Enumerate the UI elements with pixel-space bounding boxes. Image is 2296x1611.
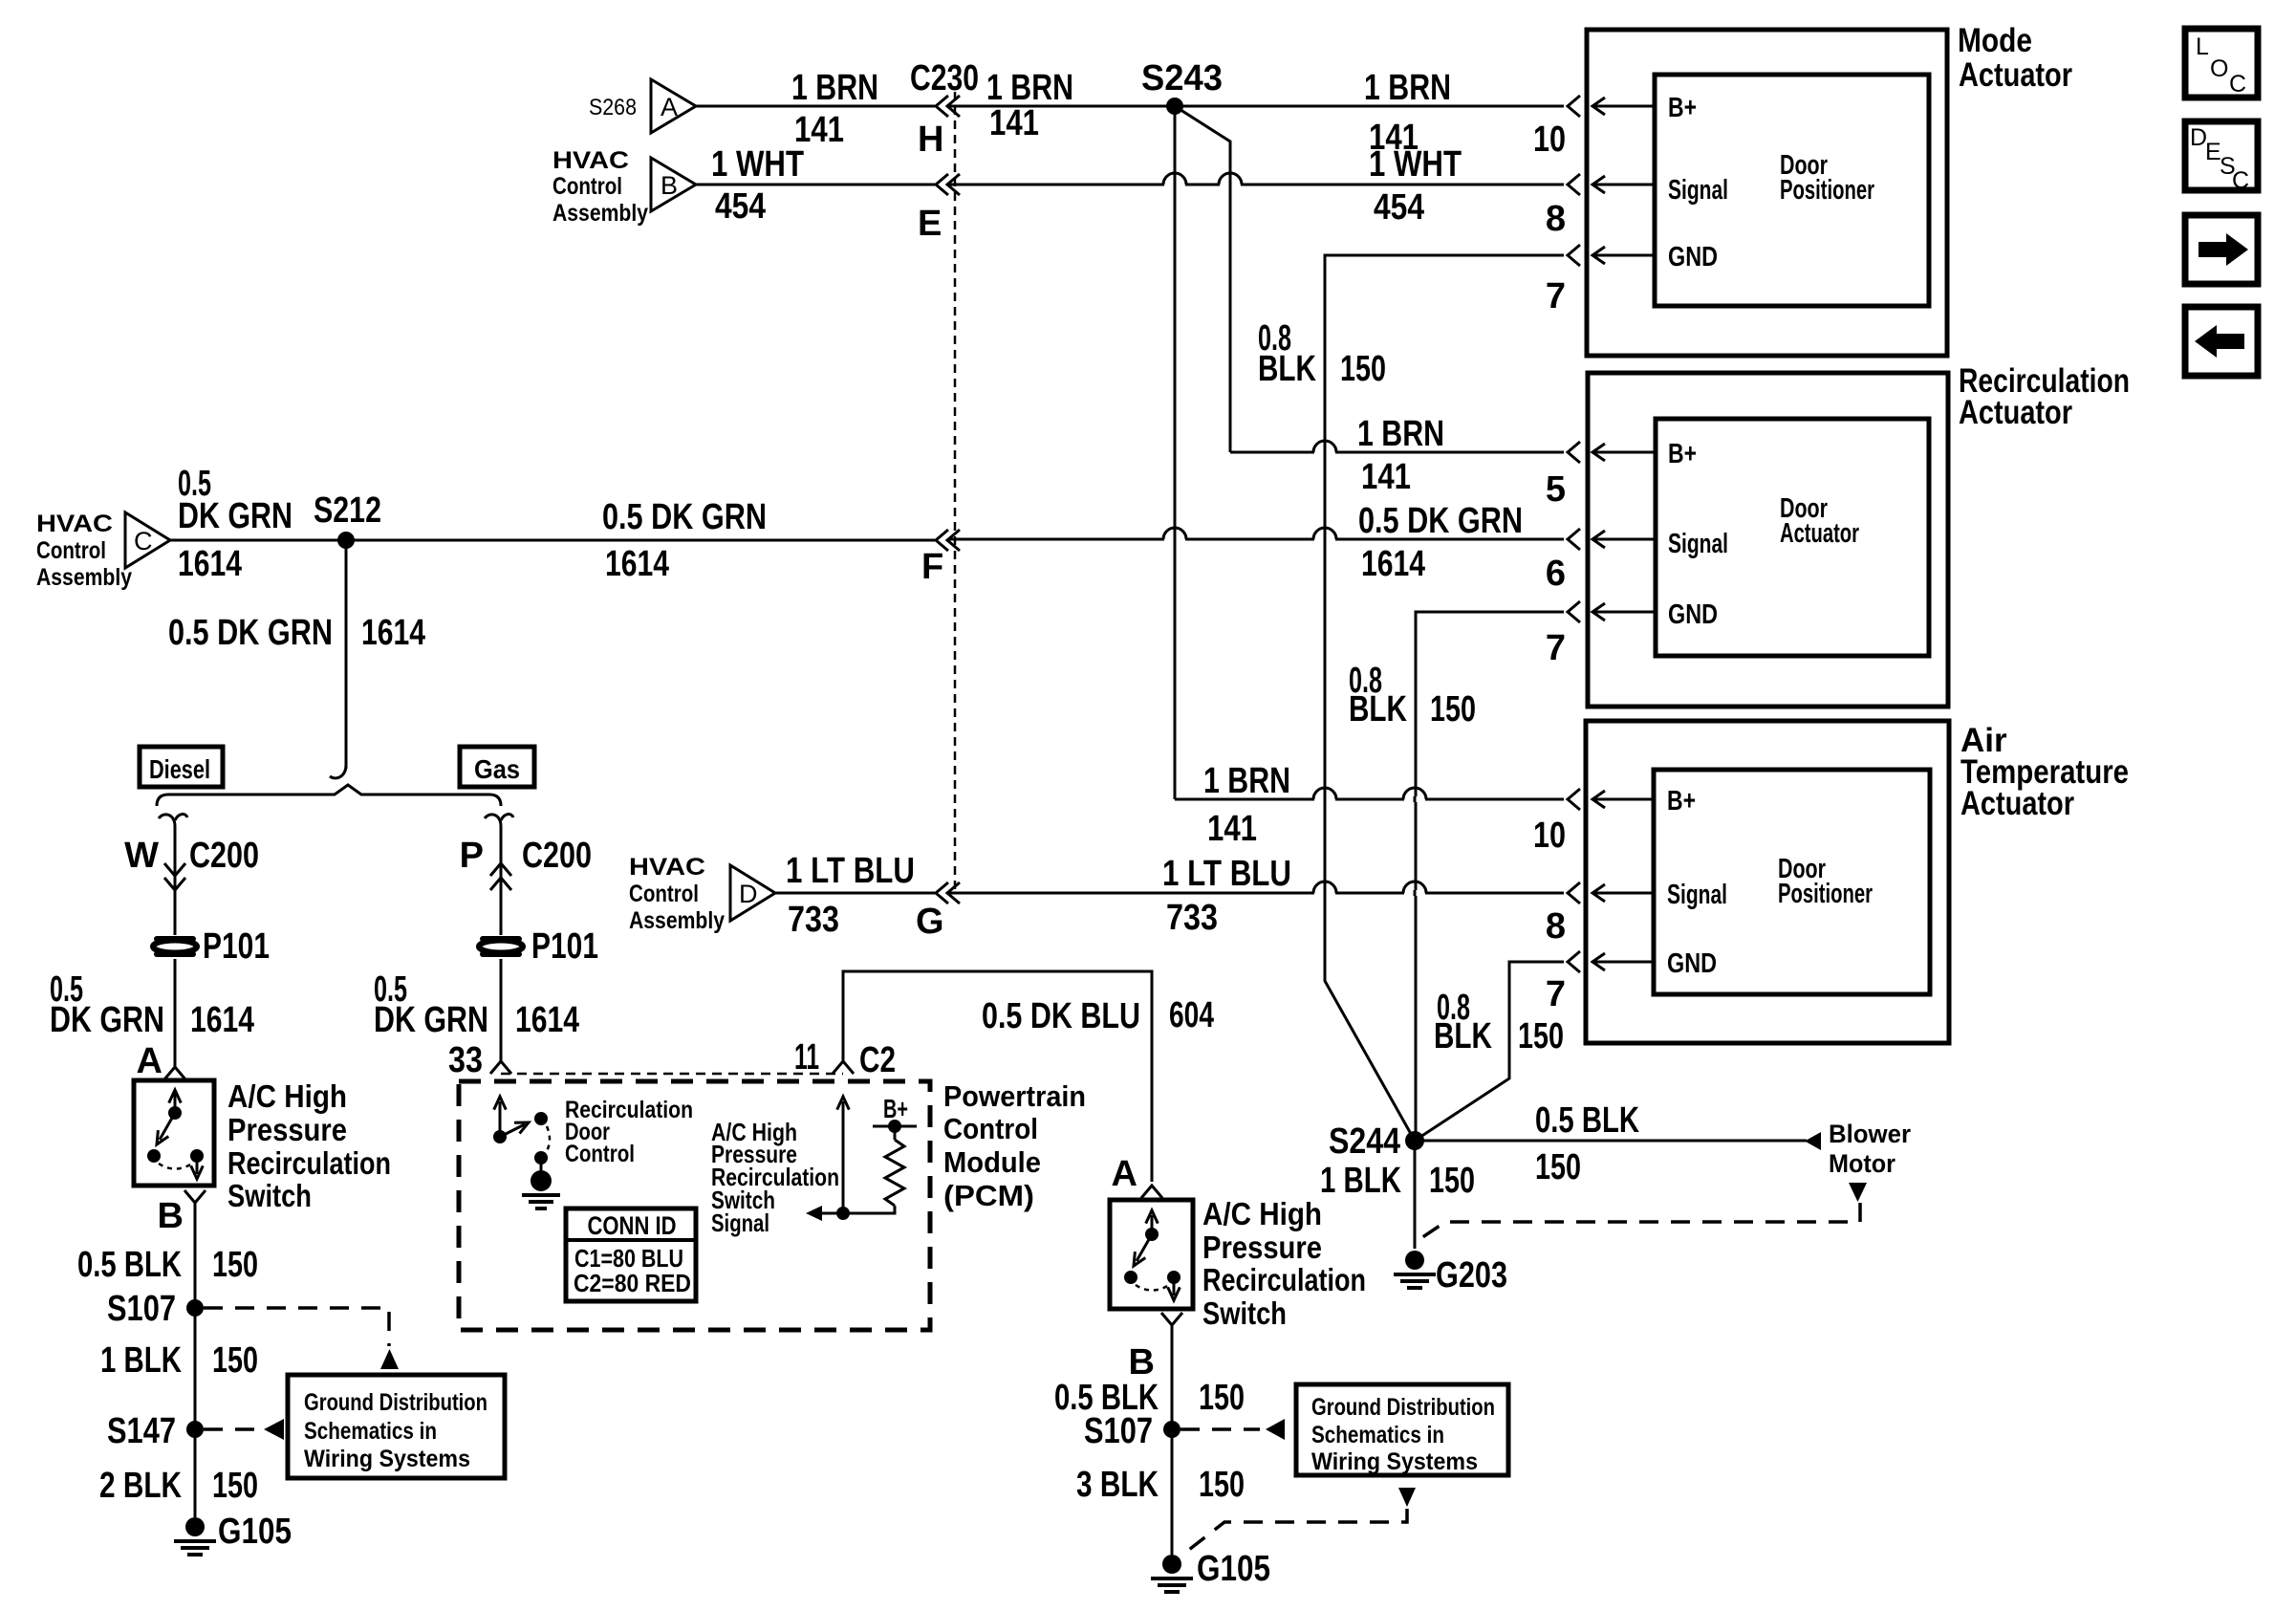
reference arrowhead below Blower Motor (1849, 1183, 1867, 1202)
svg-text:Pressure: Pressure (227, 1112, 347, 1147)
wire 0.5 DK GRN 1614 from S212 to connector C230 pin F (346, 539, 935, 542)
wire 1 BRN 141 from S243 to Mode Actuator pin 10 (1175, 105, 1564, 108)
tag box Diesel (140, 747, 223, 787)
Air Temp pin 10 chevron (1568, 789, 1580, 810)
svg-text:S268: S268 (589, 95, 637, 120)
connector C230 double chevron at pin H (936, 96, 948, 117)
label HVAC Control Assembly (bottom) (629, 854, 725, 934)
PCM recirculation door control driver symbol (493, 1097, 560, 1208)
Air Temp pin 7 chevron (1568, 951, 1580, 972)
svg-text:Pressure: Pressure (1202, 1230, 1322, 1265)
wire from P101 down to PCM connector pin 33 (500, 959, 503, 1061)
svg-text:Positioner: Positioner (1780, 175, 1874, 206)
svg-text:150: 150 (1430, 689, 1476, 729)
brace joining Diesel and Gas branches (157, 785, 501, 806)
svg-text:BLK: BLK (1258, 349, 1316, 389)
svg-text:Assembly: Assembly (36, 564, 132, 591)
wire 3 BLK 150 from right S107 to G105 (1171, 1429, 1174, 1555)
svg-text:Control: Control (36, 537, 106, 564)
svg-text:P101: P101 (531, 926, 598, 967)
svg-text:10: 10 (1533, 120, 1566, 160)
PCM internal signal arrow up (842, 1101, 845, 1213)
svg-text:150: 150 (1199, 1378, 1245, 1418)
svg-text:1 BRN: 1 BRN (986, 68, 1073, 108)
svg-text:A/C High: A/C High (227, 1078, 347, 1114)
svg-text:1 LT BLU: 1 LT BLU (1162, 854, 1291, 894)
ground G203 (1405, 1251, 1424, 1270)
svg-text:Control: Control (552, 173, 622, 200)
Recirculation pin 6 chevron (1568, 529, 1580, 550)
right A/C switch internals (1124, 1210, 1180, 1300)
svg-text:Motor: Motor (1829, 1149, 1895, 1178)
note text Ground Distribution Schematics (left) (304, 1389, 487, 1472)
label A/C High Pressure Recirculation Switch (right) (1202, 1196, 1366, 1331)
PCM B+ pull-up terminal (873, 1120, 917, 1140)
connector C230 double chevron at pin G (936, 882, 948, 903)
svg-text:7: 7 (1546, 628, 1566, 668)
connector C230 double chevron at pin E (936, 174, 948, 195)
label Door Positioner (Air Temp) (1778, 854, 1873, 909)
icon box LOC (2185, 29, 2258, 98)
svg-text:Recirculation: Recirculation (1202, 1262, 1366, 1297)
wire hop over Mode GND vertical (1314, 449, 1335, 455)
label A/C High Pressure Recirculation Switch Signal (PCM) (711, 1118, 839, 1237)
chevron at PCM pin 11 C2 (833, 1061, 854, 1074)
wire 1 WHT 454 from HVAC B to connector C230 pin E (696, 184, 935, 186)
svg-text:Wiring Systems: Wiring Systems (304, 1446, 470, 1472)
svg-text:E: E (918, 204, 942, 244)
splice S107 junction dot (right) (1163, 1421, 1180, 1438)
label Blower Motor (1829, 1120, 1911, 1178)
svg-text:B: B (661, 171, 678, 200)
svg-text:Wiring Systems: Wiring Systems (1311, 1448, 1478, 1475)
dashed connector line C230 (954, 92, 957, 893)
svg-text:141: 141 (1361, 457, 1411, 497)
svg-text:B+: B+ (1668, 93, 1697, 123)
svg-text:B+: B+ (883, 1094, 908, 1123)
svg-text:GND: GND (1668, 242, 1718, 272)
splice S147 junction dot (186, 1421, 204, 1438)
svg-text:150: 150 (212, 1245, 258, 1285)
svg-text:1614: 1614 (361, 613, 425, 653)
svg-text:150: 150 (1518, 1016, 1564, 1056)
component box Recirculation Actuator (1588, 373, 1948, 707)
wire 0.5 BLK 150 from right switch B to S107 (1171, 1325, 1174, 1429)
connector C200 chevron 2 (up) (490, 878, 511, 890)
svg-text:D: D (739, 880, 758, 908)
svg-text:1614: 1614 (1361, 544, 1425, 584)
note box CONN ID (566, 1208, 696, 1301)
svg-text:S243: S243 (1141, 58, 1223, 98)
svg-text:A: A (1112, 1154, 1137, 1194)
svg-text:BLK: BLK (1349, 689, 1407, 729)
svg-text:HVAC: HVAC (629, 854, 705, 881)
Recirculation B+ input arrow (1594, 451, 1655, 454)
svg-text:S244: S244 (1329, 1121, 1400, 1162)
svg-text:S147: S147 (107, 1411, 176, 1451)
Air Temp B+ input arrow (1594, 798, 1655, 801)
wire 1 BRN 141 from S268 to connector C230 pin H (696, 105, 935, 108)
wire Diesel branch into C200 pin W (174, 860, 177, 935)
svg-text:Gas: Gas (474, 754, 520, 784)
svg-text:0.5 BLK: 0.5 BLK (1535, 1100, 1639, 1141)
svg-text:Schematics in: Schematics in (1311, 1422, 1444, 1448)
svg-text:1 WHT: 1 WHT (1369, 144, 1462, 185)
component dashed box Powertrain Control Module PCM (459, 1081, 930, 1330)
wire hop over Mode GND vertical (AT B+) (1314, 796, 1335, 802)
svg-text:454: 454 (715, 186, 766, 227)
svg-text:H: H (918, 120, 943, 160)
splice S107 junction dot (left) (186, 1299, 204, 1317)
component box A/C High Pressure Recirculation Switch (left) (134, 1080, 214, 1186)
svg-text:C2: C2 (859, 1040, 896, 1080)
wire 0.5 BLK 150 from S244 to Blower Motor (1415, 1140, 1807, 1143)
svg-text:Recirculation: Recirculation (227, 1145, 391, 1181)
title Air Temperature Actuator (1960, 722, 2129, 822)
Mode B+ input arrow (1594, 105, 1655, 108)
title Powertrain Control Module (PCM) (943, 1079, 1086, 1212)
Mode pin 8 chevron (1568, 174, 1580, 195)
svg-text:DK GRN: DK GRN (374, 1000, 488, 1040)
svg-text:150: 150 (1340, 349, 1386, 389)
svg-text:0.5 DK GRN: 0.5 DK GRN (1358, 501, 1523, 541)
wire 0.5 DK GRN 1614 from S212 down to Diesel/Gas brace (345, 540, 348, 769)
Mode pin 7 chevron (1568, 245, 1580, 266)
svg-text:G203: G203 (1436, 1255, 1507, 1295)
wire from S243 straight down to Air Temperature B+ feed (1174, 106, 1177, 799)
icon box left arrow (2185, 307, 2258, 376)
chevron into left A/C switch pin A (164, 1067, 185, 1079)
svg-text:3 BLK: 3 BLK (1076, 1465, 1159, 1505)
svg-text:0.5 DK GRN: 0.5 DK GRN (168, 613, 333, 653)
dashed reference from S147 to note box (204, 1427, 260, 1431)
svg-text:7: 7 (1546, 276, 1566, 316)
svg-text:S107: S107 (107, 1289, 176, 1329)
Recirculation Signal input arrow (1594, 538, 1655, 541)
Mode pin 10 chevron (1568, 96, 1580, 117)
svg-text:150: 150 (212, 1340, 258, 1381)
wire 1 BLK 150 from S107 to S147 (194, 1308, 197, 1427)
svg-text:0.5 BLK: 0.5 BLK (77, 1245, 182, 1285)
svg-text:(PCM): (PCM) (943, 1179, 1034, 1212)
connector C200 chevron 1 (up) (490, 863, 511, 876)
svg-text:2 BLK: 2 BLK (99, 1466, 182, 1506)
resistor R pull-up in PCM (885, 1140, 904, 1206)
splice S243 junction dot (1166, 98, 1183, 115)
wire hop over Recirc GND vertical (G wire) (1404, 890, 1425, 896)
wire 1 BRN 141 into Air Temp pin 10 (1175, 798, 1564, 801)
label Door Positioner (Mode) (1780, 150, 1874, 206)
wire 1 BRN 141 from C230 to splice S243 (948, 105, 1175, 108)
svg-text:C200: C200 (189, 836, 259, 876)
svg-text:Control: Control (943, 1112, 1038, 1145)
svg-text:C: C (134, 527, 153, 555)
icon box DESC (2185, 121, 2258, 194)
wire break curl at top of Diesel branch (159, 815, 187, 865)
svg-text:Actuator: Actuator (1959, 394, 2072, 431)
wire 1 WHT 454 from C230 to Mode Actuator pin 8 (948, 184, 1564, 186)
svg-text:Signal: Signal (1668, 175, 1728, 206)
svg-text:Control: Control (629, 881, 699, 907)
wire Gas branch into C200 pin P (500, 860, 503, 935)
inner box Door Positioner (Air Temp) (1654, 770, 1930, 994)
wire diagonal from S243 to Recirculation B+ feed (1175, 106, 1230, 452)
svg-text:Switch: Switch (1202, 1295, 1287, 1331)
wire 0.8 BLK 150 from Mode GND down to S244 (1325, 255, 1564, 1141)
svg-text:150: 150 (212, 1466, 258, 1506)
chevron out of left A/C switch pin B (184, 1190, 206, 1203)
wire 0.5 DK GRN from C230 F to Recirculation pin 6 (948, 538, 1564, 541)
svg-text:1 BRN: 1 BRN (791, 68, 878, 108)
svg-text:C2=80 RED: C2=80 RED (574, 1269, 691, 1297)
svg-text:6: 6 (1546, 554, 1566, 594)
svg-text:B: B (158, 1196, 184, 1236)
label A/C High Pressure Recirculation Switch (left) (227, 1078, 391, 1213)
svg-text:141: 141 (989, 103, 1039, 143)
svg-text:W: W (124, 836, 159, 876)
wire 0.5 BLK 150 from left switch B to S107 (194, 1203, 197, 1308)
dashed reference from S107 to Ground Distribution note (204, 1308, 389, 1346)
CONN ID title separator (566, 1238, 696, 1242)
splice S244 junction dot (1405, 1131, 1424, 1150)
svg-text:Actuator: Actuator (1960, 785, 2074, 822)
svg-text:B+: B+ (1667, 786, 1696, 816)
svg-text:0.5 DK GRN: 0.5 DK GRN (602, 497, 767, 537)
wire hop over S243 branch vertical (1220, 182, 1241, 187)
component box A/C High Pressure Recirculation Switch (right) (1110, 1200, 1193, 1309)
svg-text:CONN ID: CONN ID (588, 1211, 677, 1240)
label Recirculation Door Control (565, 1097, 693, 1167)
svg-text:Actuator: Actuator (1780, 518, 1859, 549)
Mode Signal input arrow (1594, 184, 1655, 186)
svg-text:Ground Distribution: Ground Distribution (1311, 1394, 1495, 1421)
dashed reference from right S107 to note box (1180, 1427, 1260, 1431)
svg-text:Module: Module (943, 1145, 1041, 1179)
Air Temp Signal input arrow (1594, 892, 1655, 895)
svg-text:8: 8 (1546, 199, 1566, 239)
svg-text:1 BLK: 1 BLK (1320, 1161, 1401, 1201)
svg-text:11: 11 (794, 1037, 819, 1078)
svg-text:Mode: Mode (1958, 22, 2032, 59)
svg-text:Signal: Signal (1668, 529, 1728, 559)
svg-text:1 LT BLU: 1 LT BLU (786, 851, 915, 891)
svg-text:1614: 1614 (605, 544, 669, 584)
svg-text:Switch: Switch (227, 1178, 312, 1213)
svg-text:DK GRN: DK GRN (50, 1000, 164, 1040)
reference arrowhead left-pointing at S147 (264, 1419, 284, 1440)
svg-text:1614: 1614 (178, 544, 242, 584)
svg-text:HVAC: HVAC (36, 511, 113, 537)
svg-text:DK GRN: DK GRN (178, 496, 292, 536)
svg-text:G: G (916, 902, 944, 942)
wire from resistor to switch-signal node (822, 1206, 895, 1213)
wire 0.8 BLK 150 from Recirculation GND down to S244 (1416, 612, 1564, 1141)
svg-text:HVAC: HVAC (552, 147, 629, 174)
svg-text:GND: GND (1667, 948, 1717, 979)
tag box Gas (460, 747, 534, 787)
svg-text:S107: S107 (1084, 1411, 1153, 1451)
ground G105 (left) (185, 1517, 205, 1536)
connector C200 chevron 1 (down) (164, 863, 185, 876)
svg-text:Ground Distribution: Ground Distribution (304, 1389, 487, 1416)
svg-text:33: 33 (448, 1040, 483, 1080)
svg-text:GND: GND (1668, 599, 1718, 630)
svg-text:Control: Control (565, 1141, 635, 1167)
wire 1 BLK 150 from S244 down to G203 (1414, 1141, 1417, 1249)
wire 0.5 DK GRN 1614 from HVAC C to S212 (170, 539, 346, 542)
dashed reference from right note box to G105 (1185, 1509, 1407, 1553)
wire break curl at top of Gas branch (485, 815, 513, 865)
connector triangle HVAC Control Assembly pin B (651, 158, 696, 211)
svg-text:Diesel: Diesel (149, 754, 210, 784)
svg-text:141: 141 (1207, 809, 1257, 849)
svg-text:Signal: Signal (1667, 880, 1727, 910)
wire break curl at bottom of S212 vertical (330, 765, 346, 778)
svg-text:C: C (2229, 71, 2246, 98)
connector triangle HVAC Control Assembly pin D (730, 865, 775, 921)
svg-text:P101: P101 (203, 926, 270, 967)
label HVAC Control Assembly (top) (552, 147, 648, 227)
svg-text:1 BLK: 1 BLK (100, 1340, 182, 1381)
chevron out of right A/C switch pin B (1161, 1313, 1182, 1325)
svg-text:1 BRN: 1 BRN (1357, 414, 1444, 454)
wire hop over S243 vertical (1164, 182, 1185, 187)
thin dashed PCM connector line (501, 1073, 843, 1076)
svg-text:733: 733 (1166, 898, 1218, 938)
pass-through grommet P101 (right) (483, 936, 519, 942)
wire hop over Recirc GND vertical (AT B+) (1404, 796, 1425, 802)
svg-text:454: 454 (1374, 187, 1424, 228)
svg-text:P: P (460, 836, 484, 876)
svg-text:1 BRN: 1 BRN (1364, 68, 1451, 108)
dashed reference from Blower Motor to S244 ground wire (1419, 1203, 1860, 1240)
svg-text:Schematics in: Schematics in (304, 1418, 437, 1445)
wire 1 LT BLU 733 from HVAC D to C230 pin G (775, 892, 935, 895)
icon box right arrow (2185, 215, 2258, 284)
pass-through grommet P101 (left) (157, 936, 193, 942)
wire hop over Mode GND vertical (G wire) (1314, 890, 1335, 896)
svg-text:1614: 1614 (190, 1000, 254, 1040)
junction dot at PCM signal node (836, 1207, 850, 1220)
wire hop over S243 vertical (F wire) (1164, 536, 1185, 542)
label Door Actuator (Recirculation) (1780, 493, 1859, 549)
svg-text:C200: C200 (522, 836, 592, 876)
connector C200 chevron 2 (down) (164, 878, 185, 890)
wire 1 BRN 141 into Recirculation pin 5 (1230, 451, 1564, 454)
svg-text:C: C (2232, 167, 2249, 194)
wire from P101 to A/C switch pin A (174, 959, 177, 1067)
svg-text:L: L (2196, 33, 2209, 60)
svg-text:1 BRN: 1 BRN (1203, 761, 1290, 801)
note box Ground Distribution Schematics (left) (288, 1375, 505, 1478)
svg-text:8: 8 (1546, 906, 1566, 947)
svg-text:F: F (921, 547, 943, 587)
chevron into right A/C switch pin A (1141, 1186, 1162, 1198)
connector triangle HVAC Control Assembly pin C (125, 512, 170, 568)
reference arrowhead (up) above left note box (380, 1349, 399, 1369)
svg-text:G105: G105 (218, 1512, 292, 1552)
svg-text:Blower: Blower (1829, 1120, 1911, 1148)
reference arrowhead below right note box (1398, 1488, 1416, 1507)
svg-text:150: 150 (1199, 1465, 1245, 1505)
Recirculation pin 7 chevron (1568, 601, 1580, 622)
splice S212 junction dot (337, 532, 355, 549)
wire hop over Mode GND vertical (F wire) (1314, 536, 1335, 542)
svg-text:Assembly: Assembly (552, 200, 648, 227)
svg-text:A/C High: A/C High (1202, 1196, 1322, 1231)
ground G105 (right) (1162, 1555, 1181, 1574)
svg-text:733: 733 (788, 900, 839, 940)
svg-text:150: 150 (1535, 1147, 1581, 1187)
Mode GND input arrow (1594, 254, 1655, 257)
svg-text:0.5 DK BLU: 0.5 DK BLU (982, 996, 1140, 1036)
svg-text:Powertrain: Powertrain (943, 1079, 1086, 1113)
left A/C switch internals (147, 1090, 204, 1179)
svg-text:G105: G105 (1197, 1549, 1270, 1589)
component box Mode Actuator (1587, 30, 1947, 356)
connector C230 double chevron at pin F (936, 530, 948, 551)
svg-text:1 WHT: 1 WHT (711, 144, 804, 185)
wire 0.8 BLK 150 from Air Temp GND down to S244 (1415, 962, 1564, 1141)
Recirculation GND input arrow (1594, 611, 1655, 614)
svg-text:S212: S212 (314, 490, 381, 531)
note box Ground Distribution Schematics (right) (1296, 1384, 1508, 1475)
note text Ground Distribution Schematics (right) (1311, 1394, 1495, 1475)
svg-text:A: A (137, 1041, 162, 1081)
inner box Door Positioner (Mode) (1655, 75, 1929, 306)
inner box Door Actuator (Recirculation) (1656, 419, 1929, 656)
component box Air Temperature Actuator (1586, 721, 1949, 1043)
svg-text:C230: C230 (910, 58, 979, 98)
svg-text:B+: B+ (1668, 439, 1697, 469)
chevron at PCM pin 33 (490, 1061, 511, 1074)
wire 0.5 DK BLU 604 from PCM pin 11 to right A/C switch pin A (843, 971, 1152, 1182)
wire 2 BLK 150 from S147 to G105 (194, 1429, 197, 1517)
connector triangle S268 pin A (651, 79, 696, 133)
svg-text:604: 604 (1169, 995, 1214, 1035)
label HVAC Control Assembly (middle left) (36, 511, 132, 591)
svg-text:B: B (1129, 1342, 1155, 1382)
svg-text:Positioner: Positioner (1778, 879, 1873, 909)
title Recirculation Actuator (1959, 362, 2130, 431)
reference arrowhead left-pointing at right S107 (1266, 1419, 1285, 1440)
svg-text:Assembly: Assembly (629, 907, 725, 934)
Air Temp GND input arrow (1594, 961, 1655, 964)
svg-text:7: 7 (1546, 974, 1566, 1014)
svg-text:BLK: BLK (1434, 1016, 1492, 1056)
wire 1 LT BLU from C230 G to Air Temp pin 8 (948, 892, 1564, 895)
Air Temp pin 8 chevron (1568, 882, 1580, 903)
filled arrowhead pointing left (PCM signal) (806, 1206, 822, 1221)
svg-text:1614: 1614 (515, 1000, 579, 1040)
svg-text:5: 5 (1546, 469, 1566, 510)
svg-text:150: 150 (1429, 1161, 1475, 1201)
svg-text:O: O (2210, 55, 2228, 82)
filled arrowhead at Blower Motor wire (1805, 1132, 1821, 1150)
svg-text:10: 10 (1533, 816, 1566, 856)
Recirculation pin 5 chevron (1568, 442, 1580, 463)
svg-text:Actuator: Actuator (1959, 56, 2072, 94)
svg-text:Signal: Signal (711, 1208, 769, 1237)
svg-text:A: A (661, 93, 678, 121)
